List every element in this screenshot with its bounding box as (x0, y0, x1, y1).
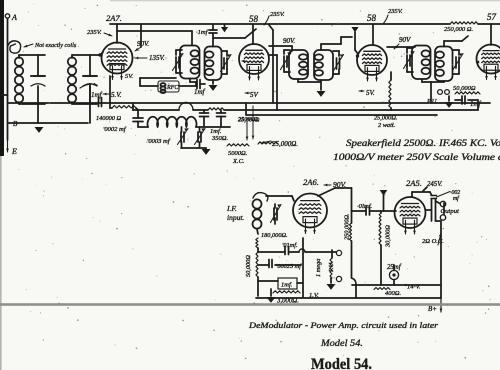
svg-text:14-V.: 14-V. (407, 284, 421, 291)
svg-text:B+: B+ (428, 305, 437, 313)
svg-text:I.F.: I.F. (226, 204, 237, 213)
svg-text:5.V.: 5.V. (111, 91, 122, 99)
svg-text:350Ω.: 350Ω. (211, 135, 228, 142)
svg-text:1mf.: 1mf. (210, 128, 222, 135)
svg-text:58: 58 (249, 14, 259, 24)
svg-text:90V.: 90V. (283, 37, 295, 45)
svg-text:A: A (11, 13, 17, 22)
svg-text:·1mf: ·1mf (196, 29, 209, 36)
svg-text:B: B (13, 120, 18, 128)
svg-text:90V.: 90V. (137, 40, 149, 48)
svg-text:Model 54.: Model 54. (311, 356, 372, 370)
svg-text:30,000Ω: 30,000Ω (385, 225, 392, 248)
svg-text:235V.: 235V. (87, 29, 102, 36)
svg-text:2A5.: 2A5. (406, 178, 422, 188)
svg-text:235V.: 235V. (270, 11, 285, 18)
svg-text:E: E (11, 147, 17, 156)
svg-text:DeModulator - Power Amp. circu: DeModulator - Power Amp. circuit used in… (248, 320, 439, 330)
svg-text:1mf: 1mf (91, 91, 103, 99)
svg-text:'0003 mf: '0003 mf (147, 138, 171, 145)
svg-text:135V.: 135V. (149, 54, 165, 62)
svg-text:1000Ω/V meter 250V Scale Vo: 1000Ω/V meter 250V Scale Volume c (333, 152, 500, 162)
svg-text:P.U.: P.U. (426, 98, 438, 105)
svg-text:25,000Ω.: 25,000Ω. (272, 140, 298, 148)
svg-text:input.: input. (227, 213, 244, 222)
svg-text:'01mf.: '01mf. (282, 242, 298, 249)
svg-text:90V.: 90V. (333, 180, 347, 189)
svg-text:5000Ω.: 5000Ω. (228, 150, 248, 157)
svg-text:1mf: 1mf (470, 100, 482, 108)
svg-text:245V.: 245V. (427, 181, 442, 188)
svg-text:90V: 90V (399, 36, 411, 44)
svg-text:140000 Ω: 140000 Ω (96, 115, 121, 122)
svg-text:1mf.: 1mf. (281, 282, 293, 289)
svg-text:2A7.: 2A7. (106, 13, 122, 23)
svg-text:5V.: 5V. (125, 73, 133, 80)
svg-text:'00025 mf: '00025 mf (276, 263, 302, 270)
svg-text:25,000Ω.: 25,000Ω. (374, 115, 397, 122)
svg-text:P.U.: P.U. (328, 261, 335, 273)
svg-text:25000Ω: 25000Ω (238, 116, 258, 123)
svg-text:57: 57 (487, 12, 497, 22)
svg-text:·0Imf.: ·0Imf. (357, 203, 373, 210)
svg-text:235V.: 235V. (388, 8, 403, 15)
svg-text:180,000Ω.: 180,000Ω. (261, 232, 288, 239)
svg-text:50,000Ω: 50,000Ω (245, 255, 252, 277)
svg-text:Model 54.: Model 54. (320, 338, 363, 349)
svg-text:50,000Ω: 50,000Ω (453, 85, 476, 92)
svg-text:250,000 Ω.: 250,000 Ω. (444, 26, 473, 33)
svg-text:1 mega: 1 mega (315, 259, 322, 277)
svg-text:2A6.: 2A6. (303, 177, 319, 187)
svg-text:5V: 5V (250, 91, 259, 99)
svg-text:Not exactly coils: Not exactly coils (34, 42, 77, 49)
svg-text:Speakerfield 2500Ω. IF.465 KC: Speakerfield 2500Ω. IF.465 KC. Vol (346, 138, 500, 148)
svg-text:400Ω.: 400Ω. (385, 290, 401, 297)
svg-text:1mf: 1mf (194, 88, 206, 96)
svg-text:X.C.: X.C. (232, 158, 245, 165)
svg-text:5V.: 5V. (366, 89, 375, 97)
svg-text:'0002 mf: '0002 mf (103, 126, 127, 133)
svg-text:RFC.: RFC. (166, 85, 180, 91)
svg-text:58: 58 (367, 13, 377, 23)
